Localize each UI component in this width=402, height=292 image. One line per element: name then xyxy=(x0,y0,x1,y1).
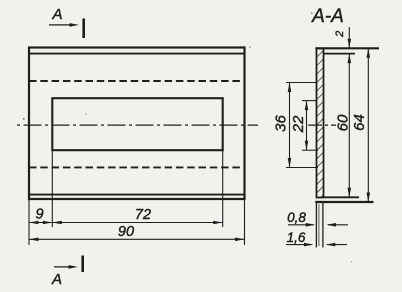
scan specks xyxy=(23,13,352,263)
extension 22 bottom xyxy=(302,149,318,151)
extension 22 top xyxy=(302,100,317,102)
dimension 36 xyxy=(273,83,292,168)
extension line inner-right xyxy=(222,150,224,227)
dimension 22 xyxy=(290,101,308,151)
svg-text:9: 9 xyxy=(35,207,43,223)
dimension 64 xyxy=(351,48,370,202)
extension line inner-left xyxy=(51,150,53,227)
section cut mark top A xyxy=(49,6,84,38)
section bottom edge xyxy=(315,201,373,203)
section center line tick xyxy=(308,124,336,126)
top flange inner line xyxy=(29,53,245,55)
extension 36 bottom xyxy=(286,167,318,169)
section top edge xyxy=(315,47,379,49)
svg-text:36: 36 xyxy=(273,115,290,132)
section web (hatched sheet) xyxy=(317,48,324,197)
dimension 72 xyxy=(52,207,222,225)
svg-text:2: 2 xyxy=(334,31,346,38)
dimension 2 xyxy=(334,27,351,48)
outer rectangle 90x64 front view xyxy=(29,48,245,200)
svg-text:0,8: 0,8 xyxy=(287,210,306,225)
dimension 90 xyxy=(29,224,245,241)
section cut mark bottom A xyxy=(51,256,83,289)
section bottom lip line xyxy=(324,196,360,198)
hidden edge dashed bottom xyxy=(29,166,245,168)
hidden edge dashed top xyxy=(29,80,245,82)
svg-text:1,6: 1,6 xyxy=(287,230,306,245)
extension line right outer xyxy=(244,199,246,245)
svg-text:60: 60 xyxy=(335,114,352,131)
sheet face extension tails xyxy=(316,202,323,248)
dimension 0,8 xyxy=(287,210,348,227)
svg-text:22: 22 xyxy=(290,115,307,133)
inner rectangle 72x22 xyxy=(52,98,222,150)
dimension 1,6 xyxy=(286,230,347,247)
svg-text:A: A xyxy=(51,271,62,288)
horizontal center line xyxy=(17,124,258,126)
svg-text:A-A: A-A xyxy=(311,6,344,27)
section top lip line xyxy=(324,53,356,55)
svg-text:64: 64 xyxy=(351,114,368,131)
extension line left outer xyxy=(28,199,30,245)
svg-text:90: 90 xyxy=(118,224,134,240)
svg-text:72: 72 xyxy=(135,207,151,223)
svg-text:A: A xyxy=(51,6,62,23)
dimension 60 xyxy=(335,54,352,198)
dimension 9 xyxy=(29,207,52,225)
bottom flange inner line xyxy=(29,194,245,196)
extension 36 top xyxy=(286,82,317,84)
